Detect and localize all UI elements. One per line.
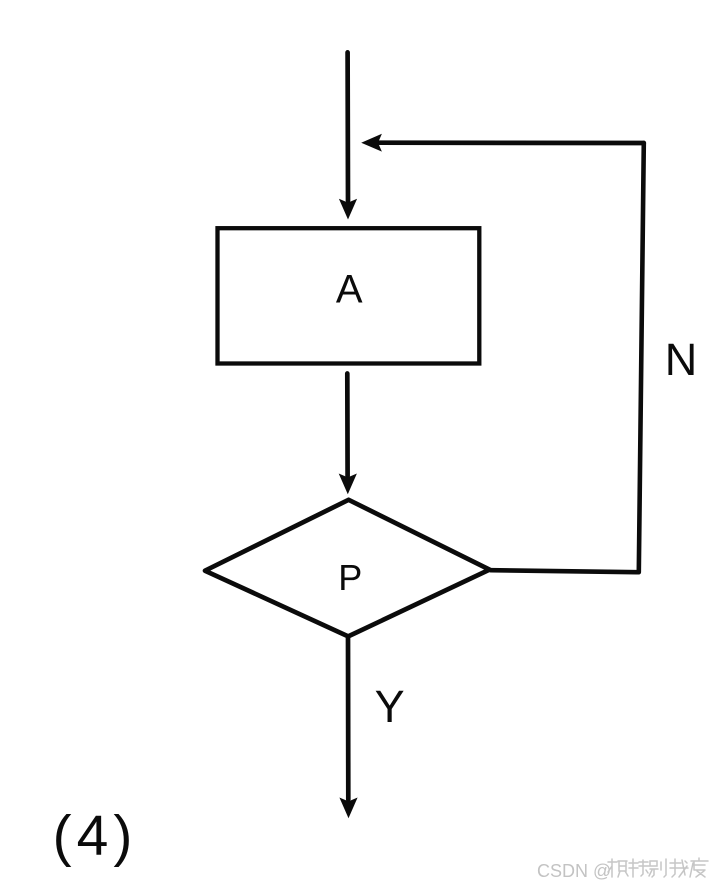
svg-text:CSDN @: CSDN @ (537, 861, 611, 881)
svg-text:P: P (338, 557, 362, 598)
watermark CSDN @... (537, 858, 708, 881)
arrow A to P (339, 374, 357, 495)
char 2 (629, 859, 649, 877)
char 4 (670, 859, 688, 877)
char 3 (649, 859, 666, 877)
label P (338, 557, 362, 598)
char 1 (608, 859, 628, 877)
approximated CJK watermark glyphs (608, 858, 708, 877)
char 5 (690, 858, 708, 877)
label N (665, 334, 698, 385)
decision diamond P (205, 500, 490, 637)
caption (4) (53, 804, 138, 868)
svg-text:N: N (665, 334, 698, 385)
svg-text:Y: Y (375, 681, 405, 732)
svg-text:(4): (4) (53, 804, 138, 868)
loop return arrow (horizontal, pointing left) (361, 134, 644, 152)
feedback wire N-branch (right side) (491, 143, 644, 572)
process box A (218, 228, 480, 363)
svg-text:A: A (336, 267, 363, 311)
label A (336, 267, 363, 311)
entry arrow into loop (top vertical) (339, 52, 357, 219)
label Y (375, 681, 405, 732)
exit arrow Y-branch (bottom vertical) (339, 638, 357, 818)
